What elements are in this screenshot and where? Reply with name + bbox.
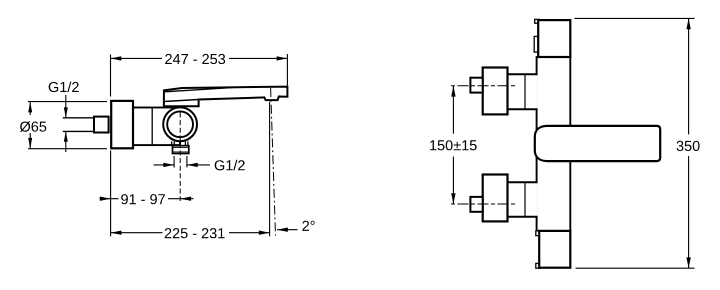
dimension 247-253 left extension <box>110 55 112 97</box>
label 91 - 97 <box>121 194 165 204</box>
body joint line <box>151 108 153 146</box>
dimension 150±15 line <box>452 86 454 134</box>
dimension 91-97 line right part <box>168 198 194 200</box>
spout / lever handle <box>164 87 288 107</box>
label G1/2 top-left <box>49 82 79 93</box>
wire: Ø65 bottom extension line <box>28 148 107 150</box>
handle/collar joint line <box>164 100 199 102</box>
pipe stub lower line <box>63 130 94 132</box>
bottom block <box>539 231 570 268</box>
label 350 <box>677 141 700 151</box>
spout blade top inner edge <box>165 88 233 92</box>
spout capsule (front view) <box>535 126 660 161</box>
dimension 225-231 right extension <box>269 102 271 237</box>
top boss joint line <box>524 74 526 109</box>
bottom check valve block <box>483 175 508 222</box>
dimension 225-231 line <box>111 232 163 234</box>
column middle section <box>537 57 571 231</box>
bottom boss joint line <box>524 182 526 216</box>
label 150±15 <box>430 140 477 150</box>
bottom boss <box>508 182 538 216</box>
label G1/2 bottom <box>215 160 245 171</box>
dimension Ø65 arrows <box>29 102 31 148</box>
wire: Ø65 top extension line <box>28 101 107 103</box>
top block tab <box>535 19 540 23</box>
knob inner circle <box>167 111 193 137</box>
2 deg leader arrow <box>277 229 298 231</box>
top inlet square <box>470 78 482 93</box>
wall plate (escutcheon) <box>111 101 133 148</box>
outlet nut <box>173 146 189 154</box>
body of mixer <box>133 108 180 146</box>
dimension G1/2 bottom line and arrows <box>154 164 175 166</box>
water stream centerline 2 deg (dash-dot) <box>271 88 276 236</box>
outlet centerline (dashed) <box>179 113 181 202</box>
dimension 350 top extension <box>575 17 695 19</box>
top block <box>538 20 570 57</box>
label 2 deg <box>302 221 314 231</box>
inlet fitting square <box>94 117 109 133</box>
dimension 247-253 right extension <box>286 54 288 86</box>
dimension 91-97 line left part <box>100 198 119 200</box>
top connector centerline (dash-dot) <box>451 85 517 87</box>
dimension 225-231 left extension <box>110 151 112 237</box>
label 247 - 253 <box>165 54 225 64</box>
dimension G1/2 left arrows <box>65 95 67 152</box>
dimension 247-253 line <box>111 57 163 59</box>
knob outer circle <box>163 107 197 141</box>
bottom connector centerline (dash-dot) <box>451 203 517 205</box>
label 225 - 231 <box>165 228 225 238</box>
dimension 350 line <box>688 18 690 134</box>
top check valve block <box>483 68 508 115</box>
outlet threads <box>172 141 188 145</box>
bottom block upper tab <box>536 231 541 236</box>
dimension G1/2 bottom ticks <box>173 156 175 167</box>
dimension 350 bottom extension <box>576 267 695 269</box>
pipe stub upper line <box>63 117 94 119</box>
top block clip <box>534 36 539 52</box>
bottom inlet square <box>470 197 482 212</box>
bottom block lower tab <box>536 263 541 268</box>
top boss <box>508 74 538 109</box>
label Ø65 <box>20 121 46 132</box>
